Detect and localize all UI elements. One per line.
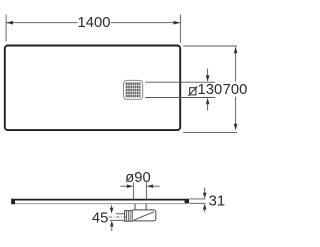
dimension 1400 extension line right [179, 15, 181, 43]
side view tray top edge [11, 199, 189, 201]
side view tray bottom edge [12, 203, 189, 205]
side view tray left end cap [11, 199, 15, 204]
dimension 31 arrow down [203, 188, 207, 199]
dimension 700 line upper segment [235, 51, 237, 82]
dimension 130 leader line top [145, 81, 215, 83]
dimension 45 arrow up [110, 221, 114, 231]
dimension 700 extension line bottom [183, 131, 237, 133]
dimension 1400 arrowhead left [6, 21, 13, 25]
dimension 130 arrow down [206, 69, 210, 82]
dimension 700 arrowhead top [234, 46, 238, 53]
dimension 31 extension line bottom [189, 202, 205, 204]
side view tray right end cap [185, 199, 189, 203]
svg-text:700: 700 [223, 82, 247, 98]
outlet pipe bottom edge [110, 219, 125, 221]
svg-text:45: 45 [92, 211, 108, 227]
outlet pipe centerline [109, 216, 127, 218]
outlet pipe top edge [116, 213, 125, 215]
dimension 31 extension line top [189, 198, 205, 200]
svg-text:1400: 1400 [78, 15, 111, 31]
siphon body diagonal [134, 212, 154, 220]
dimension o90 arrow right [147, 184, 160, 188]
dimension 700 arrowhead bottom [234, 124, 238, 131]
dimension 130 arrow up [206, 98, 210, 111]
dimension 1400 line left segment [6, 22, 78, 24]
dimension o90 extension line right [145, 182, 147, 199]
svg-text:ø90: ø90 [125, 170, 151, 186]
drain tailpipe left edge [134, 204, 136, 210]
square symbol of 130 label [188, 87, 197, 96]
dimension 1400 arrowhead right [174, 21, 181, 25]
dimension 1400 line right segment [111, 22, 180, 24]
svg-text:31: 31 [209, 194, 225, 210]
dimension 31 arrow up [203, 204, 207, 213]
dimension 1400 extension line left [5, 15, 7, 42]
shower tray top view outline [5, 46, 180, 131]
dimension 700 extension line top [183, 45, 237, 47]
dimension o90 arrow left [120, 184, 133, 188]
drain grate outer frame [124, 80, 143, 99]
drain grate hatched grille [126, 82, 141, 97]
siphon body [132, 210, 156, 221]
dimension 45 arrow down [110, 205, 114, 214]
svg-text:130: 130 [198, 82, 223, 98]
drain tailpipe right edge [145, 204, 147, 210]
dimension 130 leader line bottom [145, 97, 215, 99]
dimension 700 line lower segment [235, 97, 237, 127]
dimension o90 extension line left [133, 182, 135, 199]
siphon nut [125, 211, 133, 222]
